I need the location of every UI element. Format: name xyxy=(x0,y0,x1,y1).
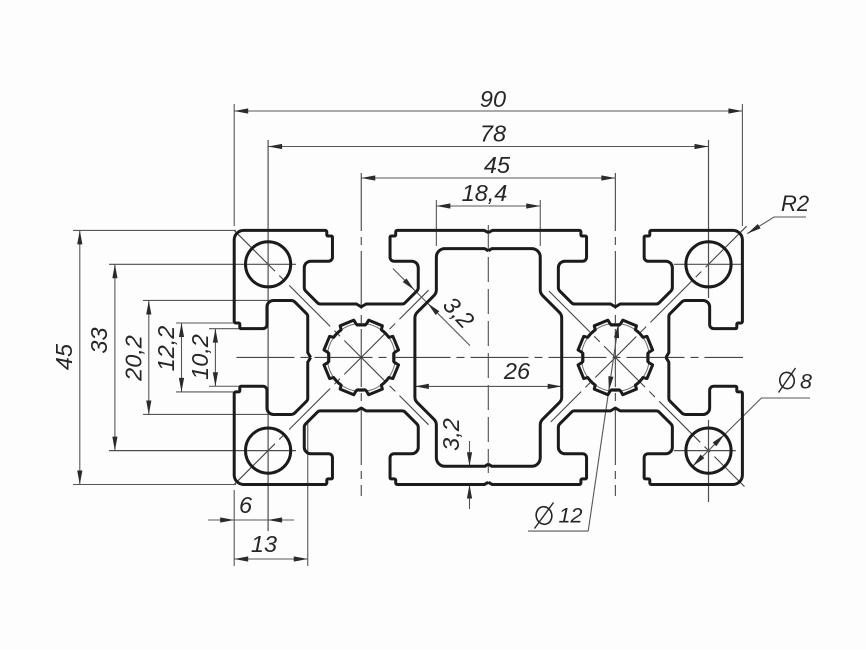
dimension 6 xyxy=(208,519,294,521)
diagonal centerline D2 bottom-left xyxy=(234,290,429,485)
profile outer boundary top-left quarter xyxy=(234,230,488,357)
svg-text:20,2: 20,2 xyxy=(121,335,147,382)
svg-text:26: 26 xyxy=(503,358,531,384)
left star screw boss outline xyxy=(324,320,399,395)
horizontal main centerline xyxy=(237,356,744,358)
svg-text:45: 45 xyxy=(51,343,77,370)
dimension 20.2 xyxy=(148,300,150,414)
svg-text:13: 13 xyxy=(251,531,277,557)
horizontal centerline bottom-left hole xyxy=(109,450,296,452)
dimension 78 xyxy=(268,146,708,148)
svg-text:6: 6 xyxy=(239,492,253,518)
Ø8 hole top-right xyxy=(686,242,731,287)
dimension 3.2 diagonal wall xyxy=(393,269,470,346)
label Ø12 xyxy=(535,505,554,525)
extension lines dim 20.2 xyxy=(143,299,270,301)
leader R2 xyxy=(747,217,806,234)
Ø12 nominal circle right star xyxy=(581,324,649,392)
extension lines dim 45 left xyxy=(73,229,236,231)
Ø12 nominal circle left star xyxy=(327,324,395,392)
dimension 3.2 bottom wall xyxy=(469,441,471,466)
extension lines dim 18.4 xyxy=(435,200,437,246)
extension line dim 6 / left face bottom xyxy=(233,490,235,566)
svg-text:90: 90 xyxy=(480,86,506,112)
svg-text:12,2: 12,2 xyxy=(153,326,179,372)
central chamber top-left quarter xyxy=(415,249,488,358)
dimension 45 left xyxy=(79,230,81,484)
diagonal centerline D4 bottom-right xyxy=(549,291,745,487)
Ø8 hole bottom-right xyxy=(686,428,731,473)
svg-text:12: 12 xyxy=(559,504,583,528)
horizontal centerline top-left hole xyxy=(109,263,296,265)
diagonal centerline D3 top-right xyxy=(551,226,747,422)
vertical centerline profile middle xyxy=(487,225,489,473)
profile outer boundary top-right quarter xyxy=(488,230,742,357)
horizontal centerline top-right hole xyxy=(674,263,742,265)
extension lines dim 10.2 xyxy=(209,328,241,330)
svg-text:45: 45 xyxy=(484,152,511,178)
dimension 33 xyxy=(114,264,116,450)
horizontal centerline bottom-right hole xyxy=(674,450,736,452)
leader and diameter dim Ø8 xyxy=(693,398,810,466)
dimension 12.2 xyxy=(181,323,183,392)
extension lines dim 12.2 xyxy=(176,322,233,324)
profile outer boundary bottom-right quarter xyxy=(488,357,742,484)
central chamber bottom-left quarter xyxy=(415,357,488,466)
Ø8 hole top-left xyxy=(246,242,291,287)
vertical centerline right hole column lower xyxy=(708,420,710,502)
svg-text:8: 8 xyxy=(800,370,812,394)
vertical centerline right star xyxy=(614,173,616,496)
leader and diameter dim Ø12 xyxy=(588,324,618,531)
svg-text:78: 78 xyxy=(480,121,506,147)
profile outer boundary bottom-left quarter xyxy=(234,357,488,484)
central chamber bottom-right quarter xyxy=(488,357,561,466)
svg-text:18,4: 18,4 xyxy=(462,180,508,206)
right star screw boss outline xyxy=(578,320,653,395)
dimension 10.2 xyxy=(214,329,216,387)
svg-text:33: 33 xyxy=(86,327,112,353)
svg-text:3,2: 3,2 xyxy=(438,418,464,451)
vertical centerline left hole column xyxy=(267,140,269,531)
dimension 90 xyxy=(234,110,742,112)
extension lines dim 90 xyxy=(233,104,235,226)
label Ø8 xyxy=(778,371,795,390)
dimension 18.4 xyxy=(436,205,540,207)
vertical centerline left star xyxy=(360,173,362,496)
Ø8 hole bottom-left xyxy=(246,428,291,473)
extension line dim 13 xyxy=(307,420,309,566)
dimension 45 top xyxy=(361,177,615,179)
dimension 26 xyxy=(415,385,562,387)
dimension 13 xyxy=(234,558,308,560)
diagonal centerline D1 top-left xyxy=(234,230,429,425)
vertical centerline right hole column upper xyxy=(708,140,710,298)
central chamber top-right quarter xyxy=(488,249,561,358)
svg-text:R2: R2 xyxy=(781,191,809,216)
svg-text:10,2: 10,2 xyxy=(187,334,213,380)
